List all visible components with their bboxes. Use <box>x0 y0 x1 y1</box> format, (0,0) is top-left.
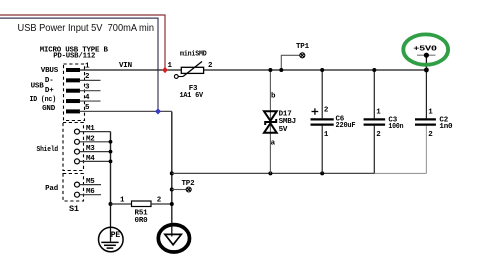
svg-text:PE: PE <box>111 231 121 240</box>
svg-text:TP2: TP2 <box>182 180 196 188</box>
svg-text:M3: M3 <box>86 145 95 153</box>
svg-text:USB Power Input 5V 700mA min: USB Power Input 5V 700mA min <box>18 22 155 34</box>
svg-text:+5V0: +5V0 <box>413 46 437 54</box>
svg-text:2: 2 <box>157 197 162 205</box>
svg-text:2: 2 <box>208 62 213 70</box>
svg-text:ID (nc): ID (nc) <box>30 96 57 104</box>
svg-text:3: 3 <box>85 83 90 91</box>
svg-text:VIN: VIN <box>119 62 132 70</box>
svg-text:D+: D+ <box>45 87 54 95</box>
svg-text:D-: D- <box>45 77 54 85</box>
svg-text:1: 1 <box>85 63 90 71</box>
svg-text:2: 2 <box>324 106 329 114</box>
svg-text:M6: M6 <box>86 188 95 196</box>
svg-text:2: 2 <box>428 131 433 139</box>
svg-text:S1: S1 <box>69 204 79 214</box>
svg-text:2: 2 <box>376 131 381 139</box>
svg-text:5: 5 <box>85 104 90 112</box>
svg-text:USB: USB <box>31 82 45 90</box>
svg-text:M5: M5 <box>86 178 95 186</box>
svg-text:M1: M1 <box>86 125 95 133</box>
svg-text:Shield: Shield <box>37 146 59 154</box>
svg-text:1: 1 <box>168 62 173 70</box>
svg-text:1: 1 <box>120 197 125 205</box>
svg-text:VBUS: VBUS <box>41 67 59 75</box>
svg-text:M2: M2 <box>86 135 95 143</box>
svg-text:5V: 5V <box>279 126 288 134</box>
svg-text:1: 1 <box>376 109 381 117</box>
svg-text:1n0: 1n0 <box>439 123 453 131</box>
svg-text:0R0: 0R0 <box>135 217 149 225</box>
svg-text:1: 1 <box>428 109 433 117</box>
svg-text:TP1: TP1 <box>296 43 310 51</box>
svg-text:b: b <box>271 92 276 100</box>
svg-text:a: a <box>271 139 276 147</box>
svg-text:Pad: Pad <box>45 185 58 193</box>
svg-text:1: 1 <box>324 131 329 139</box>
svg-text:2: 2 <box>85 73 90 81</box>
svg-text:100n: 100n <box>388 123 404 131</box>
svg-text:M4: M4 <box>86 155 95 163</box>
svg-text:GND: GND <box>42 105 56 113</box>
svg-text:miniSMD: miniSMD <box>180 51 207 59</box>
svg-text:4: 4 <box>85 94 90 102</box>
svg-text:SMBJ: SMBJ <box>279 118 296 126</box>
svg-text:220uF: 220uF <box>336 122 357 130</box>
svg-text:PD-USB/112: PD-USB/112 <box>53 53 96 61</box>
svg-text:1A1 6V: 1A1 6V <box>179 92 203 100</box>
